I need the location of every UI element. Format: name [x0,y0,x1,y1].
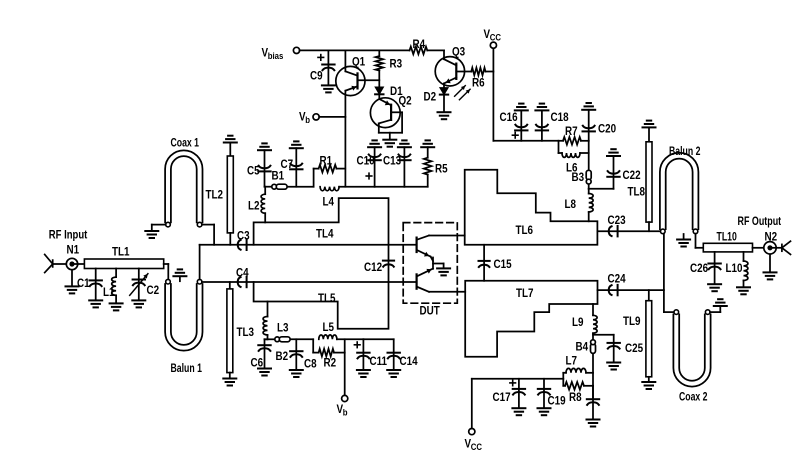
svg-text:L10: L10 [726,262,743,275]
capacitor C26 [690,252,721,284]
svg-text:C13: C13 [383,155,401,168]
transmission line TL3 [227,282,254,378]
capacitor C8 [290,339,317,370]
svg-text:R4: R4 [413,38,426,51]
wire coax2 right to ground [710,306,720,312]
capacitor C25 [608,335,644,363]
svg-text:R5: R5 [435,163,448,176]
capacitor C19 [538,379,566,408]
connector N2 [764,231,791,255]
ground under L10 [737,287,750,294]
inductor L9 [572,304,597,340]
resistor R7 [559,125,589,144]
svg-text:Balun 1: Balun 1 [171,363,203,375]
svg-text:Coax 2: Coax 2 [679,391,708,403]
capacitor C6 [251,339,271,369]
wire to coax2 [664,311,674,313]
svg-text:C4: C4 [236,267,249,280]
svg-text:B3: B3 [572,171,585,184]
ground under TL9 [642,382,655,389]
inductor L8 [565,189,594,222]
inductor L2 [248,187,265,223]
wire Q2 ground stem [389,133,391,140]
svg-text:b: b [343,407,348,418]
svg-text:R2: R2 [324,357,337,370]
svg-text:TL7: TL7 [516,287,534,300]
svg-text:TL8: TL8 [628,186,646,199]
ground under TL3 [223,379,236,386]
connector N1 [45,244,79,273]
wire B3 to node [588,185,590,189]
resistor R2 [313,339,345,369]
wire L7 R8 left node [562,373,564,386]
resistor R1 [314,155,346,187]
node Vbias terminal [262,47,300,61]
svg-text:C12: C12 [364,261,382,274]
svg-text:C23: C23 [608,214,626,227]
transmission line TL2 [206,136,237,245]
svg-text:B1: B1 [272,170,285,183]
svg-text:C9: C9 [310,70,323,83]
label RF Output [738,216,782,228]
ground at balun1 shield [173,269,186,281]
svg-text:Balun 2: Balun 2 [669,146,701,158]
svg-text:R1: R1 [320,155,333,168]
svg-text:L9: L9 [572,316,584,329]
wire node to C22 [589,188,614,190]
svg-text:C18: C18 [551,111,569,124]
wire VCC bottom rail [472,379,564,429]
ground above coax2 [714,299,727,306]
svg-text:L8: L8 [565,198,577,211]
svg-text:Q2: Q2 [399,95,412,108]
svg-text:CC: CC [471,441,482,452]
svg-text:TL10: TL10 [717,231,738,243]
capacitor C2 (variable) [130,269,159,301]
wire B4 to L7 R8 node [592,354,594,399]
wire VCC vertical [493,48,558,141]
svg-text:bias: bias [268,50,284,61]
svg-text:C25: C25 [625,342,643,355]
wire C20 node to B3 [588,141,590,171]
wire Q3 collector [443,50,445,59]
svg-text:C5: C5 [247,165,260,178]
svg-text:N1: N1 [67,244,80,257]
ground under C9 [322,85,335,92]
wire DUT common node [433,258,444,269]
svg-text:R7: R7 [565,125,578,138]
capacitor C13 [383,140,411,186]
capacitor C12 [364,245,394,282]
svg-text:C15: C15 [494,258,512,271]
svg-text:TL5: TL5 [318,292,336,305]
svg-text:C10: C10 [357,155,375,168]
wire bias line lower [265,338,394,340]
wire Q1 emitter [344,91,346,187]
svg-text:C1: C1 [77,277,90,290]
svg-text:R8: R8 [569,391,582,404]
capacitor C17 [493,379,526,408]
transistor Q1 [336,56,365,96]
ground above C18 [535,104,548,111]
svg-text:C8: C8 [304,358,317,371]
ground under C14 [387,370,400,377]
transistor Q3 [435,46,465,86]
inductor L1 [103,269,116,304]
svg-text:L5: L5 [323,321,335,334]
ground above C16 [515,104,528,111]
svg-text:TL6: TL6 [516,224,534,237]
inductor L7 (parallel with R8) [563,355,593,373]
ground under C6 [258,369,271,376]
wire Q3 emitter [443,83,445,87]
svg-text:TL4: TL4 [316,228,334,241]
capacitor C5 [247,143,271,186]
wire coax1 left to ground [152,225,166,231]
svg-text:R3: R3 [390,58,403,71]
resistor R3 [376,50,403,87]
coax 1 [165,137,202,226]
inductor L6 (parallel with R7) [559,141,589,175]
svg-text:L3: L3 [277,322,289,335]
ground under C1 [89,300,102,307]
inductor L4 [320,187,339,209]
svg-text:TL2: TL2 [206,189,224,202]
ferrite bead B3 [572,170,592,184]
svg-text:R6: R6 [472,77,485,90]
svg-text:C20: C20 [598,123,616,136]
ferrite bead B4 [576,340,596,354]
wire Vb to Q1 emitter [319,116,345,118]
capacitor C1 [77,269,102,301]
wire Vbias rail [300,49,410,51]
svg-text:B4: B4 [576,341,589,354]
svg-text:C11: C11 [370,355,388,368]
capacitor C23 [608,214,626,236]
DUT dashed box [403,223,457,318]
wire N1 ground stem [71,270,73,286]
transmission line TL4 [254,198,389,245]
capacitor C7 [281,141,303,186]
wire Q1 base [358,79,380,81]
ground under C19 [538,408,551,415]
ground under R8 cap [587,420,600,427]
ground in DUT [437,268,450,275]
node Vb terminal (lower) [337,353,348,418]
inductor L5 [319,321,337,339]
transmission line TL1 [84,246,163,269]
resistor R8 [563,382,593,404]
svg-text:Q3: Q3 [452,46,465,59]
wire Q2 base feedback box [379,112,402,132]
svg-text:C3: C3 [237,230,250,243]
svg-text:B2: B2 [276,350,289,363]
ground under C26 [708,284,721,291]
capacitor C14 [388,339,418,370]
svg-text:TL1: TL1 [112,246,130,259]
capacitor C24 [608,273,626,295]
wire bias line upper [265,186,428,188]
svg-text:C17: C17 [493,391,511,404]
svg-text:b: b [305,114,310,125]
svg-text:CC: CC [490,32,501,43]
transmission line TL5 [254,282,389,329]
wire DUT upper collector to TL6 [429,235,465,237]
node VCC terminal (bottom) [465,429,482,453]
wire N2 ground stem [769,254,771,272]
svg-text:TL3: TL3 [237,326,255,339]
ground under N1 [66,286,79,293]
ground at coax1 left [145,231,158,238]
wire balun2 right to TL10 [696,234,704,248]
ground under N2 [764,272,777,279]
transmission line TL10 [703,231,752,251]
coax 2 [673,310,710,404]
transistor Q2 (diode-connected) [370,95,411,133]
svg-text:L4: L4 [323,196,335,209]
capacitor C18 [536,110,569,140]
svg-text:C26: C26 [690,262,708,275]
transmission line TL6 [465,170,598,245]
transmission line TL7 [465,281,597,357]
svg-text:RF Input: RF Input [49,229,88,242]
wire TL7 to C24 [598,289,664,291]
inductor L10 [726,252,748,287]
capacitor below R8 [587,386,599,420]
wire L9 node to C25 [593,334,614,336]
ground under C25 [607,363,620,370]
svg-text:C14: C14 [400,355,418,368]
resistor R4 [410,38,428,54]
label RF Input [49,229,88,242]
wire balun1 right leg to line1 [199,245,201,280]
capacitor C10 [357,140,382,186]
wire line1 left [200,244,417,246]
svg-text:C24: C24 [608,273,626,286]
resistor R5 [421,140,447,186]
wire Q1 collector [344,50,346,71]
capacitor C16 [500,110,528,140]
ground at balun2 shield [677,234,690,247]
ground under L1 [110,303,123,310]
wire R4 to Q3 [427,49,444,51]
ground under C17 [512,408,525,415]
svg-text:L1: L1 [103,286,115,299]
svg-text:C22: C22 [623,169,641,182]
node Vb terminal (upper) [299,111,319,125]
wire coax1 right to line1 [202,225,214,245]
resistor R6 [456,68,493,90]
ground under D2 [438,112,451,119]
wire N1 to TL1 [78,263,85,265]
inductor L3 [263,302,288,340]
svg-text:RF Output: RF Output [738,216,782,228]
svg-text:L7: L7 [566,355,578,368]
transmission line TL9 [623,290,652,382]
wire line2 left [202,281,417,283]
capacitor C9 [310,50,335,85]
svg-text:TL9: TL9 [623,315,641,328]
svg-text:Q1: Q1 [352,56,365,69]
transmission line TL8 [628,121,656,232]
svg-text:D2: D2 [424,91,437,104]
node VCC terminal (top) [484,28,501,48]
capacitor C4 [236,267,249,287]
capacitor C20 [582,103,616,141]
svg-text:Coax 1: Coax 1 [171,137,200,149]
svg-text:C7: C7 [281,158,294,171]
LED light arrows [455,86,471,100]
svg-text:C2: C2 [147,284,160,297]
svg-text:L2: L2 [248,200,260,213]
transistor DUT lower [417,269,433,292]
wire TL6 to C23 [597,230,660,232]
wire TL1 to coax [164,264,169,279]
balun 1 [165,279,202,375]
ground under Q2 [383,140,396,147]
svg-text:C16: C16 [500,111,518,124]
ferrite bead B1 [272,170,288,189]
wire balun2 left leg down [663,234,665,313]
ground under C2 [132,300,145,307]
capacitor C22 [607,149,641,189]
svg-text:C19: C19 [548,395,566,408]
capacitor C11 [354,339,387,370]
capacitor C3 [237,230,250,250]
ferrite bead B2 [275,337,290,363]
diode D2 (LED) [424,88,449,112]
ground under C8 [290,370,303,377]
capacitor C15 [479,245,512,281]
svg-text:DUT: DUT [420,305,441,318]
transistor DUT upper [417,236,433,262]
balun 2 [660,146,701,234]
wire DUT lower collector to TL7 [429,291,465,293]
ground under C11 [357,370,370,377]
diode D1 [375,85,403,99]
wire TL10 to N2 [753,247,764,249]
